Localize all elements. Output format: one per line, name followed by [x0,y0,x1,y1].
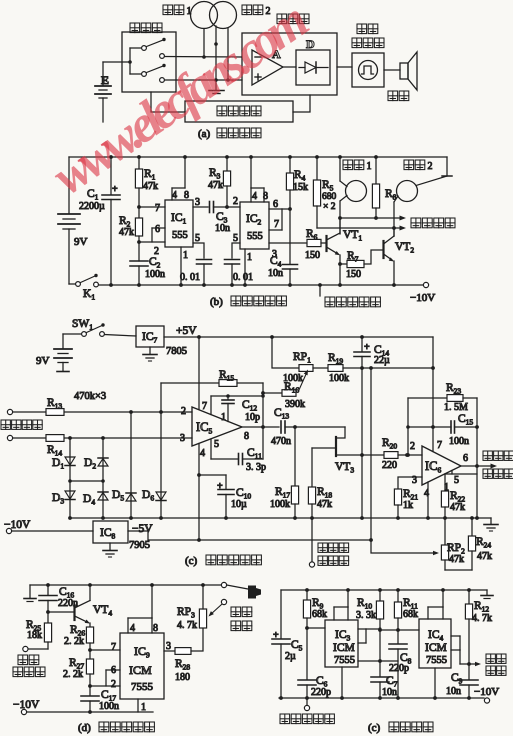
resistor R2 47k [138,207,140,218]
resistor R17 100k [294,427,296,486]
IC7 ground [149,347,151,354]
wire timing box to receiver [293,95,310,112]
svg-text:4. 7k: 4. 7k [472,613,492,624]
capacitor C16 220n [47,585,49,595]
resistor R9 68k [306,590,308,600]
svg-text:(b): (b) [210,296,223,308]
IC1 555 box [165,200,193,247]
coil 1 (b) [346,181,367,202]
IC6 output arrow 至音响发生器 [461,465,494,467]
speaker jack terminals [221,582,226,587]
IC8 7905 box [93,521,128,543]
svg-text:100k: 100k [329,373,349,384]
svg-text:5: 5 [454,475,459,486]
output vertical right [476,398,478,518]
svg-text:7905: 7905 [129,540,150,551]
svg-text:4. 7k: 4. 7k [177,620,197,631]
svg-text:8: 8 [244,431,249,442]
IC1 pin6 bracket [152,227,165,229]
resistor R24 47k [471,518,473,536]
svg-text:5: 5 [214,439,219,450]
diode symbol [299,67,305,69]
resistor R25 18k [47,612,49,623]
resistor R18 47k [311,448,313,487]
IC2 pin1 stub [244,249,246,285]
svg-text:47k: 47k [143,181,158,192]
wire battery to switch poles [103,61,130,63]
svg-text:47k: 47k [449,554,464,565]
svg-text:8: 8 [184,190,189,201]
svg-text:5: 5 [233,233,238,244]
svg-text:220p: 220p [389,663,409,674]
bottom loop RP2 R24 [445,569,472,571]
resistor R13 470k [46,409,64,416]
IC1 pins 4 8 to rail [171,188,173,200]
node R2/C2 pin2 wire [137,240,141,244]
top rail (e) [281,589,487,591]
IC3 lower right wire [358,660,398,662]
capacitor C10 10u [199,474,226,476]
resistor R1 47k [137,155,141,159]
resistor R14 470k [46,435,64,442]
capacitor C5 2u [280,590,282,639]
svg-text:180: 180 [175,672,190,683]
resistor R11 68k [397,590,399,602]
transmitter box [122,32,176,92]
svg-text:10µ: 10µ [231,499,247,510]
wire to receiver lower arrow [317,227,403,229]
R7 to VT2 base [364,250,383,264]
svg-text:3. 3p: 3. 3p [246,462,266,473]
svg-text:2: 2 [111,679,116,690]
wire S1b to receiver (lower) [165,79,243,81]
input terminal upper 来自线圈 [7,409,12,414]
svg-text:3: 3 [272,249,277,260]
ground under coils [209,90,224,92]
svg-text:6: 6 [463,453,468,464]
svg-text:2. 2k: 2. 2k [63,669,83,680]
svg-text:15k: 15k [293,182,308,193]
resistor R8 [374,155,378,159]
coil L2 circle [210,2,237,29]
label 喇叭插口 [231,607,241,617]
diode D4 [102,481,104,518]
VT1 emitter down [339,255,341,285]
resistor R7 150 [340,263,347,265]
IC5 output wire [242,426,279,428]
svg-text:555: 555 [172,230,188,241]
+5V down to IC5 pin7 [198,337,200,409]
resistor R23 1.5M feedback [408,397,447,399]
wire op-amp to diode box [283,66,296,68]
rail right terminal bar (e) [486,590,488,595]
speaker 喇叭 [400,63,408,79]
IC2 pins 4 8 to rail [250,188,252,202]
label coil2 [242,5,252,15]
coil center lead to ground [215,26,217,90]
resistor R15 feedback [161,382,219,384]
R15 left down to pin2 net [160,383,162,412]
IC4 right bracket [451,635,460,637]
capacitor C7 10n [379,630,381,677]
svg-text:−10V: −10V [13,699,40,711]
VT2 collector to coil2 [393,228,395,236]
IC3 bottom stub [341,667,343,698]
coil L1 circle [191,2,218,29]
label sound generator 音响 发生器 [357,24,367,34]
IC3 ICM7555 box [325,620,358,667]
svg-text:100k: 100k [270,499,290,510]
svg-text:7: 7 [111,642,116,653]
svg-text:2200µ: 2200µ [79,201,105,212]
node R1/R2 to pin7 [137,205,141,209]
svg-text:100n: 100n [449,436,469,447]
svg-text:10n: 10n [215,223,230,234]
bottom rail (b) [99,284,424,286]
-10V terminal (b) [423,282,428,287]
label coil1 [163,5,173,15]
IC9 pin3 wire R28 180 [164,650,175,652]
IC4 pins bracket to rail [427,607,429,619]
coil 2 (b) [397,181,418,202]
input terminal 来自发射器 [306,698,308,706]
svg-text:1: 1 [141,702,146,713]
IC4 bottom stub [434,668,436,698]
resistor R3 47k [225,155,229,159]
capacitor C3 10n [209,202,211,213]
svg-text:3: 3 [195,197,200,208]
potentiometer RP2 47k [444,518,446,545]
capacitor C11 3.3p feedback [210,439,212,459]
transistor VT2 [382,241,384,258]
label 至接收器 (b) [411,218,421,228]
wire joining D1 D2 row [70,480,103,482]
C12 top wire [211,395,263,397]
top supply rail (b) [69,156,447,158]
input terminal 来自接收器 [28,648,48,650]
switch S1a [130,47,141,49]
svg-text:0. 01: 0. 01 [233,272,253,283]
potentiometer RP3 4.7k [199,609,206,628]
svg-text:7805: 7805 [166,346,187,357]
svg-text:1: 1 [183,250,188,261]
IC1 pin1 stub [180,247,182,285]
capacitor C13 470n [280,421,282,433]
pins 6 2 bracket wire [88,684,92,688]
FET VT3 [336,427,345,438]
wire receiver to sound generator [337,66,352,68]
svg-text:100n: 100n [145,269,165,280]
diode D3 [69,481,71,518]
svg-text:6: 6 [273,199,278,210]
svg-text:7: 7 [202,401,207,412]
svg-text:6: 6 [111,665,116,676]
svg-text:68k: 68k [312,609,327,620]
svg-text:4: 4 [200,448,205,459]
R23 left vertical [407,398,409,455]
svg-text:2: 2 [428,161,433,172]
svg-text:4: 4 [130,623,135,634]
IC1 pin3 out wire [193,206,208,208]
label 至接收器 (e) [486,654,495,663]
svg-text:2: 2 [410,441,415,452]
IC2 pin5 and 0.01 cap [232,243,240,258]
diode D6 [160,412,162,518]
battery 9V (b) [68,157,70,213]
IC6 pins 1 5 bracket and R22 47k [445,473,477,475]
wire S1a to receiver (upper) [165,56,243,59]
svg-text:(c): (c) [368,722,381,734]
svg-text:22µ: 22µ [374,355,390,366]
capacitor C12 10p [227,396,229,400]
IC7 7805 box [136,326,164,347]
sound generator box [352,53,384,87]
R28 to RP3 [191,628,203,651]
svg-text:1k: 1k [403,500,413,511]
label 至定时电路 (b) [325,297,335,307]
svg-text:E: E [101,73,109,87]
IC9 pins 4 8 bracket to rail [127,618,129,633]
IC9 pin1 stub [137,699,139,712]
capacitor C14 22u [361,337,363,351]
svg-text:220: 220 [382,460,397,471]
net y630 R10 R11 IC4 [378,628,382,632]
svg-text:10n: 10n [446,686,461,697]
svg-text:+: + [112,184,118,195]
label 线圈1 (b) [343,160,353,170]
svg-text:1: 1 [247,252,252,263]
resistor R4 15k [288,155,292,159]
coil L1 lead to wire [203,29,205,58]
IC3 right bracket [358,628,366,630]
bias line to RP2 wiper [371,368,436,553]
svg-text:1: 1 [221,412,226,423]
op-amp A [252,50,283,85]
coil L2 lead [227,29,229,81]
svg-text:1. 5M: 1. 5M [444,402,468,413]
VT1 collector to coil1 [339,218,341,233]
svg-text:1: 1 [367,161,372,172]
svg-text:10n: 10n [268,268,283,279]
svg-text:4: 4 [252,191,257,202]
resistor R27 2.2k [89,650,91,659]
resistor R16 390k [261,391,265,395]
IC8 ground [109,543,111,550]
svg-text:7: 7 [274,219,279,230]
transistor VT4 [46,610,50,614]
jack plug symbol [248,586,261,599]
switch S1b [130,73,141,75]
terminal from timing circuit [311,518,313,562]
wire to speaker [384,69,400,71]
svg-text:10p: 10p [245,412,260,423]
svg-text:680: 680 [322,192,337,202]
svg-text:8: 8 [263,191,268,202]
IC4 output to receiver arrow [459,650,461,664]
resistor R12 4.7k [468,590,470,604]
IC5 pin4 stub down [198,444,200,541]
svg-text:ICM: ICM [333,642,355,654]
IC1 pin5 and 0.01 cap [193,243,204,258]
svg-text:7555: 7555 [334,655,355,666]
label 线圈2 (b) [404,160,414,170]
svg-text:−10V: −10V [410,292,435,304]
svg-text:100n: 100n [99,701,119,712]
label receiver 接收器 [277,14,287,24]
svg-text:18k: 18k [27,630,42,641]
svg-text:4: 4 [172,190,177,201]
IC6 pin7 +5V feed [432,337,434,452]
svg-text:7555: 7555 [131,681,154,693]
svg-text:47k: 47k [317,499,332,510]
svg-text:10n: 10n [382,687,397,698]
wire R26 to pin7 [88,648,92,652]
svg-text:× 2: × 2 [323,202,336,212]
capacitor C1 2200u [109,155,113,159]
svg-text:−5V: −5V [132,523,153,535]
op-amp IC5 triangle [192,407,242,446]
IC2 pin3 wire to R6 [269,242,307,244]
capacitor C4 10n [289,209,291,264]
wire transmitter to timing box [151,92,185,112]
receiver box [242,33,337,95]
svg-text:2µ: 2µ [285,651,296,662]
svg-text:470k×3: 470k×3 [74,391,106,402]
svg-text:(a): (a) [198,128,211,140]
timing circuit box 定时电路 [185,101,293,122]
capacitor C6 220p [306,628,308,680]
svg-text:47k: 47k [477,551,492,562]
svg-text:68k: 68k [403,609,418,620]
IC9 ICM7555 box [120,633,164,699]
transistor VT1 [321,242,326,244]
bottom rail (e) [279,697,484,699]
svg-text:9V: 9V [36,355,50,367]
diode D1 [69,438,71,481]
resistor R26 2.2k [89,623,91,627]
IC6 pin3 resistor R21 1k [398,477,422,489]
svg-text:2: 2 [154,246,159,257]
diode box [296,50,330,85]
svg-text:ICM: ICM [425,642,447,654]
IC3 pins bracket to rail [333,607,335,620]
svg-text:3. 3k: 3. 3k [356,610,376,621]
capacitor C17 100n [89,686,91,696]
svg-text:(d): (d) [78,722,91,734]
svg-text:2. 2k: 2. 2k [64,636,84,647]
svg-text:47k: 47k [208,180,223,191]
IC4 ICM7555 box [419,619,451,668]
svg-text:5: 5 [195,233,200,244]
svg-text:ICM: ICM [129,663,152,677]
battery 9V (c) [62,334,64,348]
resistor R19 100k [313,367,328,369]
svg-text:47k: 47k [119,227,134,238]
resistor R6 150 [307,239,321,246]
svg-text:150: 150 [305,250,320,261]
-5V rail [128,531,371,540]
diode D2 [102,438,104,481]
stub to timing circuit (b) [319,285,321,296]
IC6 pin4 stub [427,482,429,518]
bottom rail (d) [27,711,153,713]
C14 line down to ground rail [361,368,363,518]
svg-text:470n: 470n [271,436,291,447]
RP3 wiper arrow from jack [210,605,222,616]
svg-text:3: 3 [166,641,171,652]
svg-text:6: 6 [155,224,160,235]
VT2 emitter down [393,261,395,285]
svg-text:(c): (c) [185,555,198,567]
+5V rail [164,336,433,338]
capacitor C2 100n [138,242,140,261]
diode D5 [130,412,132,518]
ground symbol right [490,518,492,524]
capacitor C9 10n [468,664,470,680]
svg-text:8: 8 [153,623,158,634]
switch K1 [69,283,75,285]
svg-text:555: 555 [247,231,263,242]
RP1 100k potentiometer [272,337,299,368]
svg-text:−10V: −10V [474,686,499,698]
label transmitter 发射器 [130,23,140,33]
capacitor C8 220p [397,630,399,644]
capacitor C15 100n feedback [408,426,451,428]
R15 right vertical to output [262,383,264,427]
svg-text:390k: 390k [285,399,305,410]
svg-text:7: 7 [437,440,442,451]
resistor R5 680x2 [315,155,319,159]
battery E [102,62,104,85]
wire to receiver upper arrow [340,217,403,219]
IC2 pin6 pin7 bracket [269,208,282,210]
IC2 555 box [240,202,269,249]
op-amp IC6 triangle [422,446,461,485]
left terminal bar (d) [29,585,31,598]
svg-text:2: 2 [233,196,238,207]
svg-text:47k: 47k [450,502,465,513]
svg-text:0. 01: 0. 01 [180,272,200,283]
svg-text:220p: 220p [311,687,331,698]
svg-text:7555: 7555 [426,655,447,666]
top rail (d) [30,584,222,586]
svg-text:150: 150 [346,269,361,280]
svg-text:9V: 9V [74,236,88,248]
input terminal lower [7,435,12,440]
ground rail (c) [70,517,491,519]
svg-text:+5V: +5V [176,325,197,337]
resistor R10 3.3k [379,590,381,601]
resistor R20 220 [384,452,398,459]
R9 node to IC3 [305,626,309,630]
svg-text:7: 7 [155,203,160,214]
svg-text:+: + [217,481,223,492]
